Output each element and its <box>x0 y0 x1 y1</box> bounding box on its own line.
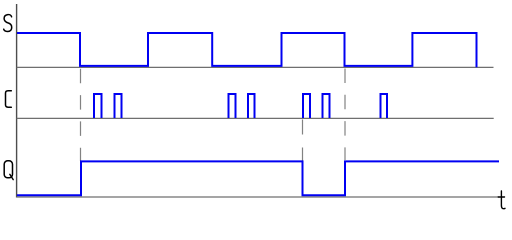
vertical signal axis <box>16 4 18 198</box>
label C <box>6 91 12 107</box>
S baseline <box>17 66 494 68</box>
C pulse 7 <box>381 94 388 118</box>
C pulse 6 <box>323 94 330 118</box>
dashed event line at t1 (x=80.5) <box>80 69 82 161</box>
Q baseline (time axis) <box>17 196 500 198</box>
dashed event line at t2 (x=302.5) <box>302 120 304 162</box>
dashed event line at t3 (x=345) <box>344 69 346 161</box>
C baseline <box>17 117 494 119</box>
C pulse 5 <box>303 94 310 118</box>
C pulse 4 <box>248 94 255 118</box>
label t <box>498 191 505 209</box>
C pulse 1 <box>94 94 102 118</box>
label S <box>4 15 12 32</box>
Q waveform <box>17 161 499 195</box>
S waveform <box>17 33 477 67</box>
C pulse 3 <box>229 94 236 118</box>
label Q <box>4 161 13 180</box>
C pulse 2 <box>115 94 122 118</box>
